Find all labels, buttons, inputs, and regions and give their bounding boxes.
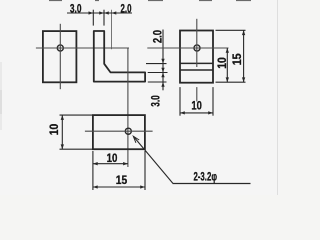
bottom view outline [93,115,145,149]
top dim extension line 2 [103,10,105,26]
right view centerline stub below [196,87,198,101]
arrows bottom 10 [93,162,98,165]
svg-text:15: 15 [116,175,128,187]
arrow 2.0 right [112,11,117,14]
bottom view left dim bottom ext [60,148,93,150]
dim line 15 (right) [243,30,245,82]
right view bottom dim ext left [179,87,181,116]
arrows bottom 15 [93,185,98,188]
right view outline [180,31,213,83]
arrows bottom 10 of right view [180,111,185,114]
svg-text:15: 15 [232,53,244,66]
side right dimension line [162,30,164,91]
arrow down at fillet ext [161,59,164,64]
svg-text:10: 10 [49,124,61,136]
scan noise top edge [49,0,251,2]
arrow 3.0 left [89,11,94,14]
side view L outline [94,31,145,82]
bottom-plate hole axis line [127,48,129,167]
svg-text:3.0: 3.0 [150,95,162,107]
top dimension line [67,12,132,14]
top dim extension line 1 [92,10,94,26]
dim line 10 (right) [226,48,228,82]
svg-text:10: 10 [107,153,118,165]
arrows left 10 [61,115,64,120]
svg-text:3.0: 3.0 [70,3,82,15]
svg-text:2-3.2φ: 2-3.2φ [193,170,217,184]
svg-text:10: 10 [217,57,229,69]
bottom view horizontal centerline [85,130,153,132]
bottom view left shared ext below [92,151,94,190]
svg-text:2.0: 2.0 [152,30,164,43]
leader arrowhead [133,136,139,143]
front view hole circle [57,45,63,51]
right side ext line (leg top) [148,72,168,74]
leader line to hole [133,136,250,183]
front view vertical centerline [59,24,61,89]
bottom dim line 15 [93,186,145,188]
bottom view right ext below [144,151,146,190]
arrows diamond at leg top ext [161,68,164,73]
hole horizontal centerline (front+side) [36,47,129,49]
right view bottom ext line [216,81,246,83]
right view vertical centerline [196,19,198,67]
arrows for 10 right [226,48,229,53]
arrow up at leg bottom ext [161,82,164,87]
faint right page edge artifact [277,0,279,195]
right view hole horizontal centerline [147,47,228,49]
right view top ext line for 15 [216,29,246,31]
svg-text:10: 10 [191,101,202,113]
faint left page edge artifact [0,62,2,130]
right view inner line 2 [180,69,213,71]
arrows for 15 right [242,30,245,35]
front view plate outline [43,31,77,82]
arrows diamond at ext2 [99,11,104,14]
right side ext line (fillet start) [146,63,167,65]
right view inner line 1 [180,62,213,64]
bottom dim line 10 [93,163,128,165]
top dim extension line 3 [111,10,113,50]
right view bottom dim line [180,112,213,114]
right view bottom dim ext right [212,87,214,116]
bottom view left dim line [61,115,63,149]
bottom view hole circle [125,128,131,134]
right side ext line (leg bottom) [148,81,167,83]
bottom view left dim top ext [60,114,93,116]
right view hole circle [194,45,200,51]
svg-text:2.0: 2.0 [121,3,132,15]
